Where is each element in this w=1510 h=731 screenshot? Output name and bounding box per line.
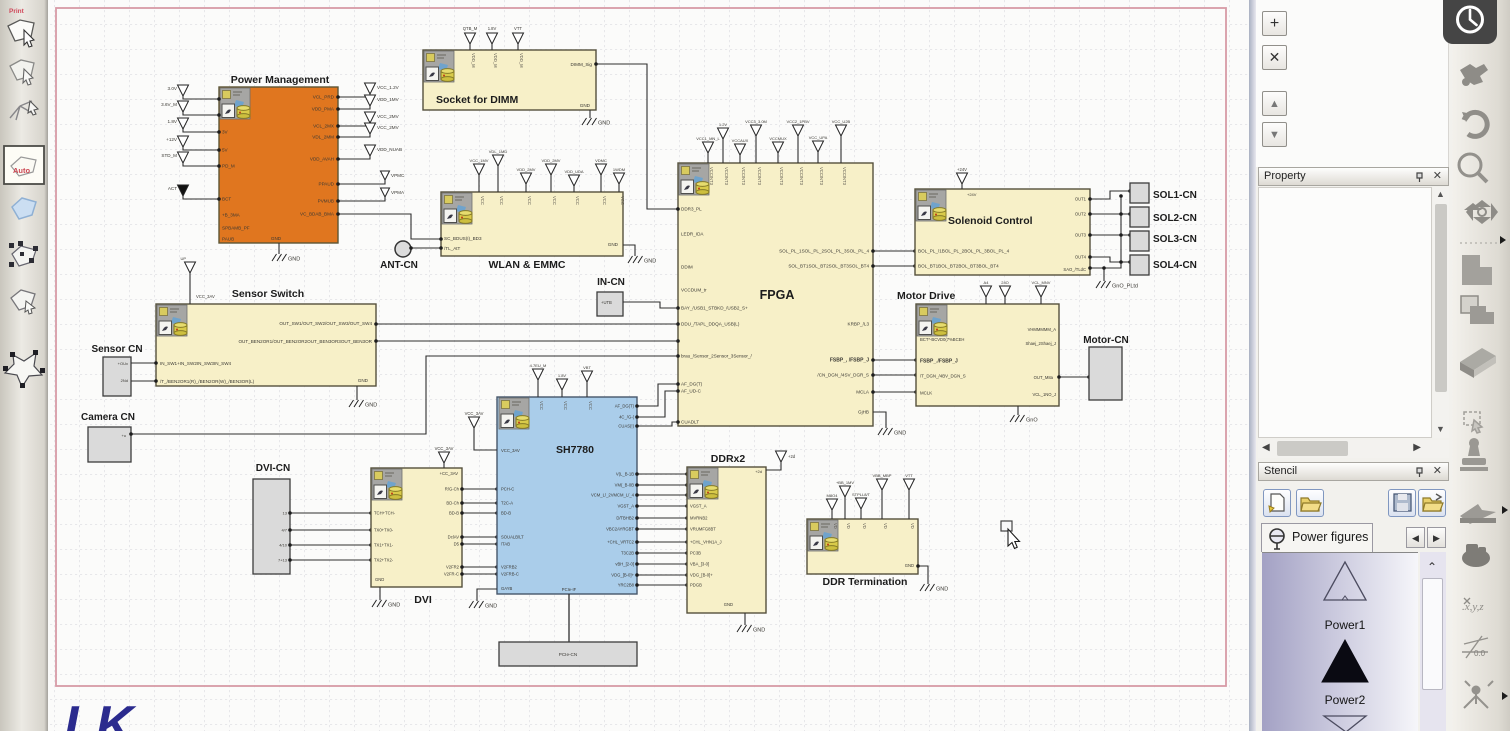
power symbol VDMC [596,164,607,175]
wire DVI-CN pin 4/7 to DVI [290,529,371,531]
svg-text:VCC: VCC [588,401,593,410]
svg-text:VDMC: VDMC [595,158,607,163]
wire +2.5V to DDRx2 [766,462,781,470]
power symbol VPMC [381,171,390,180]
wire SH7780 VDG_[B-0]+ to DDRx2 [637,574,687,576]
power symbol VCC_1.2V [365,83,376,94]
svg-text:V2FRB-C: V2FRB-C [501,572,519,577]
svg-text:/TAB: /TAB [501,542,510,547]
IC block WLAN and EMMC [441,192,623,256]
svg-text:SOL_PL_1SOL_PL_2SOL_PL_3SOL_PL: SOL_PL_1SOL_PL_2SOL_PL_3SOL_PL_4 [779,249,869,254]
power symbol 4.7EU_M [533,369,544,380]
wire VCC2_1PBV stem [797,136,799,163]
svg-text:AF_DG(T): AF_DG(T) [681,382,703,387]
svg-text:LK: LK [64,696,137,731]
svg-text:24O: 24O [1001,280,1009,285]
svg-text:GnO: GnO [1026,418,1038,424]
svg-text:OUT_M8a: OUT_M8a [1034,375,1054,380]
junction pin [460,572,464,576]
clock icon [1458,7,1483,32]
power symbol 3.6V_M [178,101,189,112]
wire DDR Termination GND [918,566,928,584]
right tool strip [1452,0,1510,731]
svg-text:TX1+TX1-: TX1+TX1- [374,543,394,548]
strip expand marker 2 [1502,692,1508,700]
toolbar icon star polygon [3,350,45,388]
IC block SH7780 [497,397,637,594]
junction [1119,260,1123,264]
junction pin [217,97,221,101]
svg-text:SOL2-CN: SOL2-CN [1153,213,1197,224]
svg-text:VBB_MBP: VBB_MBP [873,473,892,478]
svg-text:VGST_A: VGST_A [617,504,634,509]
connector Camera CN [88,427,131,462]
svg-text:SOL4-CN: SOL4-CN [1153,260,1197,271]
svg-text:GND: GND [894,431,906,437]
junction [1128,189,1132,193]
power symbol VBT [582,371,593,382]
wire SH7780 V(L_B-1B to DDRx2 [637,473,687,475]
junction pin [336,124,340,128]
junction pin [336,135,340,139]
svg-text:Motor Drive: Motor Drive [897,290,956,302]
connector SOL1-CN [1130,183,1149,203]
svg-text:Motor-CN: Motor-CN [1083,335,1129,346]
junction pin [369,528,373,532]
svg-text:VDD_PMA: VDD_PMA [312,107,335,112]
svg-text:+OUx: +OUx [118,361,128,366]
junction pin [336,199,340,203]
svg-text:PVMUB: PVMUB [318,199,334,204]
svg-text:PCIe-IF: PCIe-IF [562,587,577,592]
svg-text:GND: GND [388,603,400,609]
svg-text:PD_M: PD_M [222,164,235,169]
svg-text:/T_DGN_/4BV_DGN_S: /T_DGN_/4BV_DGN_S [920,374,966,379]
svg-text:VCL_1NO_J: VCL_1NO_J [1032,392,1056,397]
power symbol VCC_3AV sensor [185,262,196,273]
wire A4 stem [985,297,987,304]
svg-text:VCC1_MN_L: VCC1_MN_L [696,136,720,141]
ground Motor Drive [1010,415,1025,422]
wire DVI-CN pin 13 to DVI [290,512,371,514]
svg-text:MCLA: MCLA [856,390,870,395]
svg-text:VTT: VTT [905,473,913,478]
svg-text:VDD_UDA: VDD_UDA [564,169,583,174]
svg-text:OUT1: OUT1 [1075,197,1087,202]
power symbol VCC_3AV SH7780 [469,417,480,428]
wire DDRx2 GND stem [744,613,746,625]
wire VDD_2MV stem [525,184,527,192]
svg-text:M8O4: M8O4 [827,493,839,498]
svg-text:VBC2AYRGBT: VBC2AYRGBT [606,527,634,532]
strip icon refresh [1464,112,1487,136]
wire DVI-CN pin 4/10 to DVI [290,544,371,546]
svg-text:VGST_A: VGST_A [690,504,707,509]
junction pin [1057,375,1061,379]
wire VCCMUX stem [777,153,779,163]
icon cluster Socket for DIMM [424,51,454,82]
svg-text:VDG_[B-0]+: VDG_[B-0]+ [611,573,634,578]
wire DVI BD-B to SH7780 [462,512,497,514]
Stencil title bar [1258,462,1449,481]
svg-text:AF_DG(T): AF_DG(T) [615,404,635,409]
svg-text:PPAUD: PPAUD [319,182,335,187]
strip icon tripod [1464,681,1493,708]
sheet up button [1262,91,1287,116]
connector ANT-CN [395,241,411,257]
stencil Power3 triangle inverted [1324,716,1366,731]
svg-text:GND: GND [598,121,610,127]
svg-text:YRC2B8: YRC2B8 [618,583,635,588]
connector PCIe-CN box [499,642,637,666]
connector DVI-CN [253,479,290,574]
wire SH7780 VGST_A to DDRx2 [637,505,687,507]
property vertical scrollbar [1433,187,1449,438]
property horizontal scrollbar [1258,440,1449,458]
junction pin [685,504,689,508]
junction pin [635,415,639,419]
svg-text:Solenoid Control: Solenoid Control [948,215,1033,227]
svg-text:GND: GND [358,378,369,383]
svg-text:VRUMFG8BT: VRUMFG8BT [690,527,716,532]
svg-text:GND: GND [271,236,282,241]
power symbol VDD_2MV [546,164,557,175]
junction pin [336,212,340,216]
junction pin [635,504,639,508]
junction pin [635,472,639,476]
svg-text:OUT_SW1/OUT_SW2/OUT_SW3/OUT_SW: OUT_SW1/OUT_SW2/OUT_SW3/OUT_SW4 [279,321,372,326]
wire Power Management to VCC_2MV [338,134,370,137]
junction pin [685,540,689,544]
svg-text:4.7EU_M: 4.7EU_M [530,363,547,368]
junction pin [374,339,378,343]
svg-text:VM(_B-0B: VM(_B-0B [615,483,635,488]
junction pin [288,543,292,547]
svg-text:VD: VD [883,523,888,529]
svg-text:VCC: VCC [563,401,568,410]
svg-text:1.8V: 1.8V [558,373,567,378]
svg-text:VDL_1MD: VDL_1MD [489,149,508,154]
wire VDD_2MV stem [550,175,552,192]
junction pin [685,562,689,566]
svg-text:VCC_3AV: VCC_3AV [435,446,454,451]
wire VCC_UPA stem [817,152,819,163]
wire 1.8V stem to SH7780 [561,390,563,397]
wire IN-CN to FPGA [623,302,678,308]
junction pin [129,432,133,436]
svg-text:VCC_U2B: VCC_U2B [832,119,851,124]
svg-text:VDD_1MV: VDD_1MV [377,97,400,102]
schematic page border [56,8,1226,686]
svg-text:VDD_AVAH: VDD_AVAH [310,157,334,162]
IC block Sensor Switch [156,304,376,386]
junction [1119,194,1123,198]
power symbol VCCAUX [735,144,746,155]
svg-text:VCM_L/_2VMCM_L/_4: VCM_L/_2VMCM_L/_4 [591,493,635,498]
svg-text:T3C2B: T3C2B [621,551,634,556]
svg-text:+2d: +2d [788,454,796,459]
power symbol M8O4 [827,499,838,510]
junction pin [336,95,340,99]
power symbol VCC_2MV [365,123,376,134]
svg-text:VCL_MNV: VCL_MNV [1032,280,1051,285]
power symbol VTT [513,33,524,44]
svg-text:1WDM: 1WDM [613,167,625,172]
svg-text:VDL_2MM: VDL_2MM [312,135,334,140]
ground DDRx2 [737,625,752,632]
junction pin [154,361,158,365]
IC block DDR Termination [807,519,918,574]
junction pin [460,542,464,546]
wire +12V to Power Management pin [183,147,219,150]
wire SH7780 VBC2AYRGBT to DDRx2 [637,528,687,530]
stencil tab scroll left button [1406,527,1425,548]
junction pin [495,535,499,539]
svg-text:V2FRB2: V2FRB2 [501,565,517,570]
svg-text:BD-Ch: BD-Ch [446,501,459,506]
junction pin [685,516,689,520]
IC block FPGA [678,163,873,426]
wire +24V stem [961,184,963,189]
svg-text:Power2: Power2 [1325,693,1366,707]
power symbol +12V [178,136,189,147]
strip icon block L [1462,255,1492,285]
wire SH7780 4C_/G-( to FPGA [637,391,678,417]
wire ANT-CN to WLAN [411,247,441,249]
wire STPLL8/T stem [860,509,862,519]
svg-text:DDIM: DDIM [681,265,693,270]
junction pin [288,511,292,515]
svg-text:DDR3_PL: DDR3_PL [681,207,702,212]
strip icon axis 0.0 [1462,636,1488,658]
junction pin [217,197,221,201]
schematic canvas [48,0,1249,731]
svg-text:+BB_1MV: +BB_1MV [836,480,854,485]
svg-text:VCCINT3: VCCINT3 [724,167,729,186]
svg-text:PCIe-CN: PCIe-CN [559,652,577,657]
wire DIMM_Sig to FPGA [596,64,678,209]
svg-text:1.8V: 1.8V [488,26,497,31]
svg-text:1.2V: 1.2V [719,122,728,127]
wire VCC1_MN_L stem [707,153,709,163]
IC block DVI [371,468,462,587]
stencil Power1 triangle outline [1324,562,1366,600]
junction pin [685,551,689,555]
svg-text:OUT_BEN2OR1/OUT_BEN2OR2OUT_BEN: OUT_BEN2OR1/OUT_BEN2OR2OUT_BEN3OR3OUT_BE… [238,339,372,344]
svg-text:V(L_B-1B: V(L_B-1B [616,472,634,477]
svg-text:BD-B: BD-B [501,511,511,516]
stencil new button [1263,489,1291,517]
power symbol VCC_1MV [474,164,485,175]
strip icon boat wedge [1460,504,1496,524]
junction pin [217,164,221,168]
Power figures tab [1261,523,1373,552]
junction [1102,266,1106,270]
connector SOL2-CN [1130,207,1149,227]
wire SH7780 D/TBHB2 to DDRx2 [637,517,687,519]
svg-text:CUAS(!): CUAS(!) [618,424,634,429]
svg-text:GND: GND [936,587,948,593]
svg-text:SPBAMB_PF: SPBAMB_PF [222,226,250,231]
wire Motor Drive GND stem [1017,406,1019,415]
wire Sensor CN to Sensor Switch 2 [131,380,156,382]
wire WLAN GND [623,245,635,256]
svg-text:/CN_DGN_/4SV_DGR_S: /CN_DGN_/4SV_DGR_S [817,373,869,378]
svg-text:Auto: Auto [13,166,30,175]
junction pin [460,487,464,491]
junction pin [676,207,680,211]
junction pin [635,583,639,587]
svg-text:DIMM_Sig: DIMM_Sig [571,62,593,67]
svg-text:VD: VD [833,523,838,529]
junction pin [439,237,443,241]
svg-text:DVI-CN: DVI-CN [256,463,290,474]
power symbol 1.8V [557,379,568,390]
junction pin [635,540,639,544]
svg-text:VCCMUX: VCCMUX [769,136,787,141]
svg-text:BCT: BCT [222,197,231,202]
wire OUT_M8a [1059,376,1089,378]
wire OUT_SENSOR net to FPGA [376,340,678,342]
power symbol VCC2_1PBV [793,125,804,136]
junction pin [871,249,875,253]
wire QTB_M stem [469,44,471,50]
stencil open button [1296,489,1324,517]
icon cluster Sensor Switch [157,305,187,336]
wire FPGA FSBP to Motor Drive [873,359,916,361]
svg-text:VCC: VCC [602,196,607,205]
junction pin [676,322,680,326]
svg-text:GND: GND [375,577,384,582]
junction pin [685,483,689,487]
junction pin [154,379,158,383]
wire 1.8V to Power Management pin [183,129,219,132]
junction pin [288,558,292,562]
svg-text:GND: GND [485,604,497,610]
svg-text:VCC: VCC [539,401,544,410]
panel splitter [1249,0,1256,731]
wire OUT1 [1090,191,1130,199]
wire +BB_1MV stem [844,497,846,519]
svg-text:1.8V: 1.8V [168,119,178,124]
IC block Socket for DIMM [423,50,596,110]
junction pin [676,420,680,424]
power symbol VCC_U2B [836,125,847,136]
svg-text:+UTB: +UTB [601,300,612,305]
power symbol VCC1_MN_L [703,142,714,153]
svg-text:IN_SW1+IN_SW2IN_SW3IN_SW4: IN_SW1+IN_SW2IN_SW3IN_SW4 [160,361,232,366]
wire SH7780 PCIe stem [568,594,570,642]
junction pin [676,207,680,211]
svg-text:+24V: +24V [967,192,977,197]
svg-text:ACT: ACT [168,186,177,191]
svg-text:GND: GND [905,563,914,568]
power symbol VCC_UPA [813,141,824,152]
junction pin [871,358,875,362]
power symbol 1.8V [487,33,498,44]
svg-text:GND: GND [365,403,377,409]
power symbol VPMA [381,188,390,197]
wire Power Management to VCC_2MV [338,123,370,126]
svg-text:TX2+TX2-: TX2+TX2- [374,558,394,563]
junction pin [495,511,499,515]
svg-text:VCC: VCC [499,196,504,205]
svg-text:VD: VD [910,523,915,529]
svg-text:VDD_M: VDD_M [519,53,524,68]
wire Camera CN to FPGA [131,356,678,434]
junction pin [685,472,689,476]
svg-text:VTT: VTT [514,26,522,31]
svg-text:CUADLT: CUADLT [681,420,699,425]
svg-text:R/G-Ch: R/G-Ch [445,487,460,492]
connector Motor-CN [1089,347,1122,400]
power symbol 1.2V [718,128,729,139]
svg-text:SAO_/TLdC: SAO_/TLdC [1063,267,1086,272]
svg-text:4/7: 4/7 [281,528,287,533]
wire DVI V2FR-C to SH7780 [462,573,497,575]
svg-text:+2d: +2d [755,469,762,474]
stencil save button [1388,489,1416,517]
junction pin [676,389,680,393]
svg-text:3.6V_M: 3.6V_M [161,102,177,107]
junction pin [369,543,373,547]
svg-text:GND: GND [288,257,300,263]
wire FPGA SOL_BT bus to Solenoid Control [873,265,915,267]
IC block Solenoid Control [915,189,1090,275]
strip icon wedge 3d [1460,348,1496,378]
junction pin [635,551,639,555]
svg-text:VPMC: VPMC [391,173,405,178]
svg-text:STD_M: STD_M [161,153,177,158]
svg-text:DVI: DVI [414,594,432,606]
svg-text:LEDR_IDA: LEDR_IDA [681,232,704,237]
junction pin [635,424,639,428]
svg-text:VCC2_1PBV: VCC2_1PBV [786,119,809,124]
svg-text:ANT-CN: ANT-CN [380,260,418,271]
svg-text:VHMMMMM_A: VHMMMMM_A [1028,327,1057,332]
power symbol VTT [904,479,915,490]
svg-text:+CHL_VRTC2: +CHL_VRTC2 [607,540,634,545]
junction pin [685,493,689,497]
wire DVI R/G-Ch to SH7780 [462,488,497,490]
power symbol +24V [957,173,968,184]
mouse cursor with place-symbol box [1001,521,1020,549]
junction pin [217,113,221,117]
svg-text:TCH+TCH-: TCH+TCH- [374,511,396,516]
toolbar icon wire tool [10,101,38,120]
junction pin [460,565,464,569]
wire Sensor Switch GND stem [356,386,358,400]
svg-text:+B_3MA: +B_3MA [222,213,241,218]
wire M8O4 stem [831,510,833,519]
svg-text:VCC: VCC [620,196,625,205]
svg-text:GND: GND [644,259,656,265]
wire Power Management to VCC_1.2V [338,94,370,97]
svg-text:brau_/Sensor_2Sensor_3Sensor_/: brau_/Sensor_2Sensor_3Sensor_/ [681,354,752,359]
svg-text:QTB_M: QTB_M [463,26,478,31]
junction pin [685,573,689,577]
svg-text:BOL_PL_/1BOL_PL_2BOL_PL_3BOL_P: BOL_PL_/1BOL_PL_2BOL_PL_3BOL_PL_4 [918,249,1010,254]
junction pin [871,264,875,268]
wire SH7780 VCM_L/_2VMCM_L/_4 to DDRx2 [637,494,687,496]
svg-text:VCC_1MV: VCC_1MV [470,158,489,163]
junction pin [635,573,639,577]
wire VCCAUX stem [739,155,741,163]
junction pin [635,493,639,497]
svg-text:Shaej_2Shaej_J: Shaej_2Shaej_J [1025,341,1056,346]
wire VCC_3AV stem to Sensor Switch [189,273,191,304]
junction pin [369,511,373,515]
